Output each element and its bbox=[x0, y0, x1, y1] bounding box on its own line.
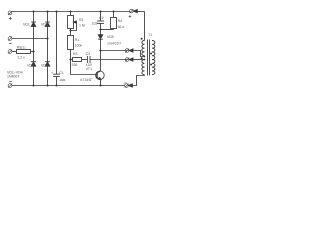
svg-text:R4: R4 bbox=[118, 19, 123, 23]
junction node dots top rail bbox=[32, 10, 34, 12]
dot T1 polarity primary bbox=[141, 38, 143, 40]
svg-text:100к: 100к bbox=[75, 43, 83, 47]
diode VD1 bbox=[33, 12, 35, 23]
diode VD4 bbox=[45, 61, 50, 63]
diode VD5 bbox=[100, 30, 102, 35]
wire to T1 top bbox=[144, 12, 146, 41]
diode VD2 bbox=[31, 61, 36, 63]
node XT3 bridge bbox=[32, 50, 34, 52]
resistor R4 bbox=[113, 12, 115, 18]
svg-text:56 к: 56 к bbox=[118, 25, 125, 29]
connector XS2 bbox=[125, 49, 129, 53]
dot T1 polarity secondary top bbox=[150, 53, 152, 55]
svg-text:1N4007: 1N4007 bbox=[107, 41, 121, 45]
terminal XT2 minus input bbox=[8, 37, 12, 41]
wire top rail bbox=[12, 11, 130, 13]
terminal XT3 bbox=[8, 50, 12, 54]
svg-text:102: 102 bbox=[92, 22, 98, 26]
label minus XT2 bbox=[9, 42, 12, 44]
resistor R3 bbox=[71, 59, 73, 61]
svg-text:VT1: VT1 bbox=[86, 67, 92, 71]
label plus out bbox=[129, 15, 131, 17]
node R1 R3 base bbox=[69, 58, 71, 60]
transformer T1 core bbox=[147, 40, 149, 76]
svg-text:Т1: Т1 bbox=[148, 33, 152, 37]
capacitor C3 bbox=[86, 56, 88, 63]
wire VD5 node to R4 bbox=[101, 29, 114, 31]
svg-text:VD1: VD1 bbox=[23, 22, 30, 26]
capacitor C1 electrolytic bbox=[56, 12, 58, 75]
node XT2 bridge bbox=[46, 37, 48, 39]
svg-text:VD5: VD5 bbox=[107, 35, 114, 39]
node R2 wiper bbox=[69, 29, 71, 31]
node VD5 R4 bbox=[99, 28, 101, 30]
svg-text:+: + bbox=[51, 71, 53, 75]
terminal XT4 bbox=[8, 84, 12, 88]
dot T1 polarity feedback bbox=[141, 57, 143, 59]
svg-text:R5(1): R5(1) bbox=[17, 45, 26, 49]
node T1 taps bbox=[144, 56, 146, 58]
terminal XT1 plus input bbox=[8, 11, 12, 15]
svg-text:R2: R2 bbox=[79, 18, 84, 22]
resistor R5 box bbox=[17, 50, 31, 54]
svg-text:ов: ов bbox=[124, 81, 128, 85]
wiper loop R2 bbox=[71, 22, 77, 31]
svg-text:330: 330 bbox=[72, 63, 78, 67]
svg-text:2,2 к: 2,2 к bbox=[17, 56, 25, 60]
terminal out plus bbox=[130, 9, 134, 13]
svg-text:R1: R1 bbox=[75, 38, 80, 42]
wire collector node to XS1 bbox=[101, 50, 128, 52]
wire R5 to node bbox=[31, 51, 34, 53]
svg-text:VD3: VD3 bbox=[41, 22, 48, 26]
label minus XT4 bbox=[9, 80, 12, 82]
svg-text:КТ315Г: КТ315Г bbox=[80, 78, 92, 82]
dot T1 polarity secondary bottom bbox=[150, 64, 152, 66]
wire XT3 to R5 bbox=[12, 51, 17, 53]
svg-text:1 М: 1 М bbox=[79, 23, 85, 27]
trimmer R2 bbox=[70, 12, 72, 16]
svg-text:VD4: VD4 bbox=[41, 64, 48, 68]
wire from XT2 to bridge node bbox=[12, 38, 48, 40]
transformer T1 winding secondary bbox=[152, 41, 155, 75]
svg-text:С1: С1 bbox=[59, 71, 64, 75]
svg-text:R3: R3 bbox=[73, 52, 78, 56]
connector XS3 bbox=[125, 58, 129, 62]
label plus XT1 bbox=[9, 17, 12, 20]
capacitor C2 bbox=[100, 12, 102, 22]
svg-text:1N4007: 1N4007 bbox=[7, 74, 19, 78]
svg-text:1мк: 1мк bbox=[59, 78, 65, 82]
diode VD3 bbox=[47, 12, 49, 23]
arrow to out plus bbox=[133, 10, 137, 13]
node bottom rail bbox=[32, 84, 34, 86]
wire collector bbox=[100, 51, 102, 72]
svg-text:С3: С3 bbox=[86, 52, 91, 56]
svg-text:VD2: VD2 bbox=[27, 64, 34, 68]
connector XS4 bbox=[125, 84, 129, 88]
resistor R1 bbox=[68, 36, 74, 50]
wire bottom rail bbox=[12, 85, 125, 87]
transformer T1 winding primary bbox=[142, 41, 145, 56]
transistor VT1 bbox=[96, 71, 105, 80]
node collector bbox=[99, 49, 101, 51]
transformer T1 winding feedback bbox=[142, 60, 145, 75]
svg-text:С2: С2 bbox=[99, 16, 104, 20]
wire base path bbox=[71, 74, 97, 76]
